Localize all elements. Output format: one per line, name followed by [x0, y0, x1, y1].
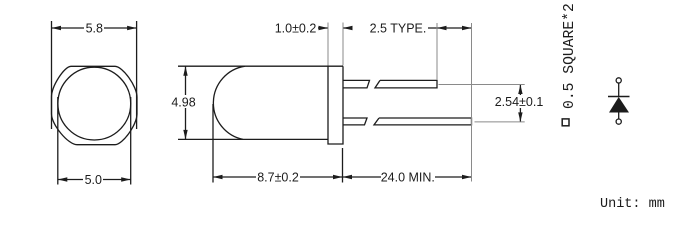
- lead 2 (bottom) segment B: [374, 118, 472, 125]
- 2.54 ext line top: [439, 84, 525, 86]
- diode triangle: [609, 97, 629, 113]
- svg-text:Unit: mm: Unit: mm: [600, 197, 665, 212]
- 1.0±0.2 dimension lead lines: [318, 27, 328, 29]
- diode symbol: [608, 78, 630, 124]
- wire: 5.8 dimension line: [52, 27, 85, 29]
- svg-text:5.8: 5.8: [86, 21, 103, 35]
- 2.54 ext line bottom: [475, 121, 525, 123]
- top view: LED epoxy body circle (5.0): [58, 67, 131, 140]
- diode bottom wire: [618, 113, 620, 120]
- dimension texts: [85, 21, 544, 187]
- lead 2 (bottom) segment A: [344, 118, 368, 125]
- 1.0 ext line left (flange left): [327, 23, 329, 66]
- 8.7/24.0 dimension line: [213, 176, 256, 178]
- diode top terminal circle: [616, 78, 621, 83]
- arrows: 4.98: [183, 66, 187, 76]
- svg-text:0.5 SQUARE*2: 0.5 SQUARE*2: [562, 3, 578, 109]
- 2.54 dimension line (vertical): [519, 85, 521, 96]
- svg-text:2.5 TYPE.: 2.5 TYPE.: [370, 21, 427, 35]
- 4.98 dimension line (vertical): [185, 66, 187, 95]
- 2.5 TYPE dimension line: [428, 27, 472, 29]
- diode bottom terminal circle: [616, 119, 621, 124]
- side view: epoxy dome arc: [213, 66, 245, 139]
- vertical note: 0.5 SQUARE*2: [562, 3, 578, 126]
- arrows: 5.8: [52, 26, 62, 30]
- arrows: 5.0: [58, 177, 68, 181]
- 8.7 left extension line: [212, 104, 214, 183]
- 2.5 ext line left (lead1 end): [436, 23, 438, 80]
- side view: body bottom line + extension: [178, 138, 328, 140]
- diode cathode bar: [608, 96, 630, 98]
- svg-text:5.0: 5.0: [85, 173, 102, 187]
- wire: 5.0 left extension line: [57, 97, 59, 185]
- arrows: 24.0: [343, 175, 353, 179]
- lead 1 (top) segment B: [375, 80, 437, 88]
- 1.0 ext line right (flange right): [342, 23, 344, 66]
- wire: 5.8 left extension line: [51, 21, 53, 129]
- side view: body top line + extension: [178, 65, 343, 67]
- wire: 5.0 right extension line: [130, 97, 132, 185]
- square symbol of note: [562, 119, 569, 126]
- wire: 5.0 dimension line: [58, 179, 83, 181]
- svg-text:2.54±0.1: 2.54±0.1: [495, 95, 544, 109]
- arrows: 1.0±0.2: [319, 26, 329, 30]
- svg-text:24.0 MIN.: 24.0 MIN.: [381, 171, 435, 185]
- arrows: 8.7: [213, 175, 223, 179]
- lead 1 (top) segment A: [344, 80, 370, 88]
- shared tick extension at flange right: [342, 148, 344, 183]
- 2.5/24.0 ext line right (lead2 end): [471, 23, 473, 182]
- side view: flange rectangle: [328, 66, 343, 144]
- arrows: 2.54: [518, 85, 522, 95]
- svg-text:8.7±0.2: 8.7±0.2: [257, 171, 299, 185]
- svg-text:1.0±0.2: 1.0±0.2: [275, 21, 317, 35]
- diode top wire: [618, 83, 620, 97]
- top view: LED flange outline (octagon-like, 5.8): [52, 66, 138, 144]
- svg-text:4.98: 4.98: [171, 95, 195, 109]
- arrows: 2.5 TYPE: [437, 26, 447, 30]
- wire: 5.8 right extension line: [136, 21, 138, 129]
